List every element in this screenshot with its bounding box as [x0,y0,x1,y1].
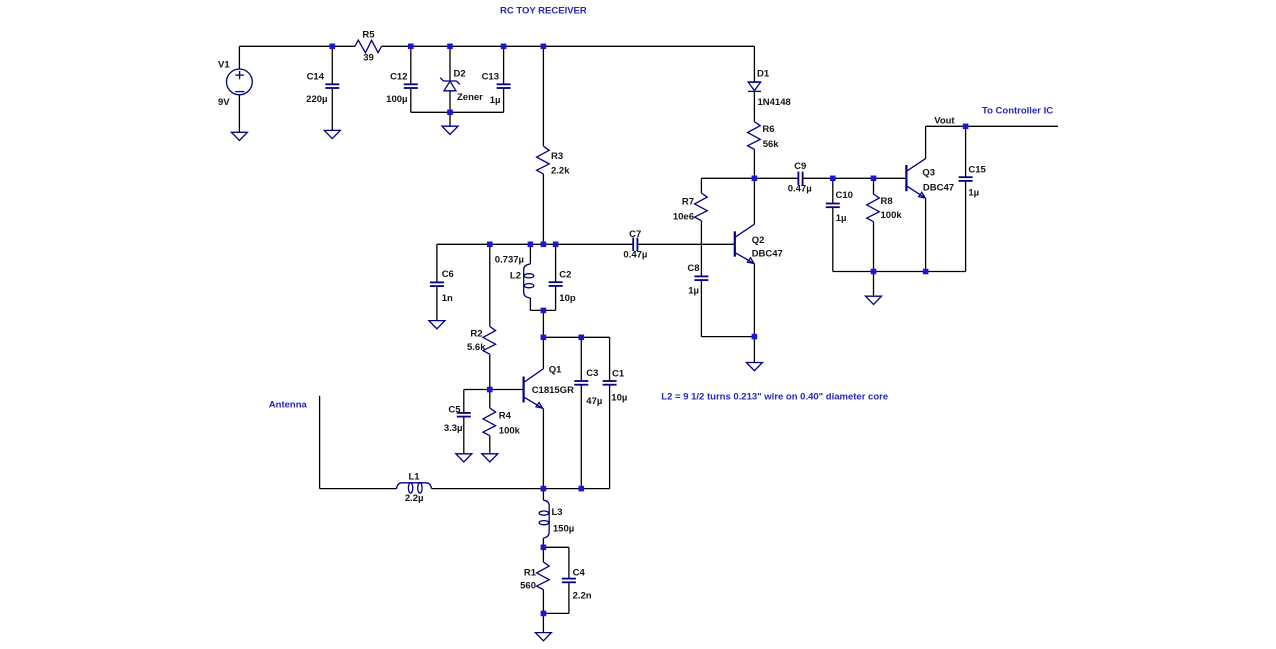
svg-text:R7: R7 [682,196,694,207]
svg-text:0.47µ: 0.47µ [788,184,812,195]
svg-text:10µ: 10µ [611,392,627,403]
node R8 bottom ground [871,269,877,275]
svg-text:150µ: 150µ [553,524,574,535]
capacitor C4 2.2n [543,547,591,613]
wire C3 node to C1 corner [581,336,609,338]
node D2 top [447,44,453,50]
wire C14 node to R5 left [332,45,355,47]
svg-text:DBC47: DBC47 [752,249,783,260]
resistor R6 56k [748,122,780,150]
svg-text:2.2µ: 2.2µ [405,493,424,504]
capacitor C14 220u [306,46,339,130]
wire tank node down to collector rail [542,310,544,337]
node C3 top [579,335,585,341]
ground below C5 [456,454,472,462]
wire Q3 collector up to Vout rail [925,126,927,158]
wire R5 right to C12 node [382,45,411,47]
svg-text:C3: C3 [586,368,598,379]
ground below R1 [535,633,551,641]
wire Q1 base rail [464,389,523,391]
ground below D2 [442,126,458,134]
svg-text:D1: D1 [757,68,770,79]
capacitor C7 0.47u [623,229,647,261]
wire R6 to node [753,149,755,178]
wire Q3 emitter down [925,198,927,271]
svg-text:C2: C2 [559,269,571,280]
svg-text:220µ: 220µ [306,94,327,105]
diode D1 1N4148 [748,68,791,108]
ground below V1 [231,132,247,140]
node R2 top [487,242,493,248]
svg-text:1µ: 1µ [836,213,847,224]
voltage source V1 9V [218,60,252,108]
svg-text:C7: C7 [629,229,641,240]
svg-text:R6: R6 [762,124,774,135]
node Q3 emitter bottom [923,269,929,275]
svg-text:2.2k: 2.2k [551,166,570,177]
wire Q2 collector to node [753,178,755,224]
svg-text:100µ: 100µ [386,94,407,105]
svg-text:1µ: 1µ [968,187,979,198]
wire R2 node to L2 node [490,243,531,245]
node L3 bottom [541,545,547,551]
wire Q1 collector up [542,337,544,369]
resistor R8 100k [867,178,903,271]
svg-text:R3: R3 [551,151,563,162]
ground below R4 [482,454,498,462]
wire D1 to R6 [753,91,755,121]
svg-text:R2: R2 [470,329,482,340]
svg-text:C1815GR: C1815GR [532,385,574,396]
svg-text:C13: C13 [482,72,499,83]
ground below Q2 [746,363,762,371]
resistor R7 10e6 [673,178,707,244]
svg-text:L2: L2 [510,270,521,281]
svg-text:C14: C14 [307,72,325,83]
zener diode D2 [440,46,483,112]
resistor R1 560 [520,547,549,613]
wire mid rail C6 to R2 node [437,243,490,245]
svg-text:39: 39 [363,53,374,64]
svg-text:R8: R8 [881,196,893,207]
svg-text:10e6: 10e6 [673,211,694,222]
svg-text:R5: R5 [362,30,375,41]
svg-text:47µ: 47µ [586,396,602,407]
inductor L1 2.2u [397,471,432,504]
inductor L3 150u [539,489,574,548]
svg-text:V1: V1 [218,60,230,71]
node C12 top [408,44,414,50]
capacitor C13 1u [482,46,511,112]
node D2 ground rail [447,110,453,116]
wire C9 to C10 node [803,177,833,179]
capacitor C15 1u [959,126,987,271]
svg-text:L3: L3 [552,507,563,518]
transistor Q3 DBC47 [906,159,954,199]
svg-text:10p: 10p [559,293,576,304]
wire C12 node to D2 node [411,45,450,47]
node Vout [963,124,969,130]
ground below C6 [429,321,445,329]
node L2 top [528,242,534,248]
capacitor C2 10p [549,244,576,310]
svg-text:R4: R4 [499,411,512,422]
svg-text:560: 560 [520,581,536,592]
wire ground stub below D2 rail [449,112,451,126]
node C13 top [501,44,507,50]
svg-text:C1: C1 [612,369,625,380]
resistor R5 39 [355,30,382,64]
svg-text:Q2: Q2 [752,235,765,246]
wire Q1 emitter down [542,408,544,488]
svg-text:C5: C5 [448,404,461,415]
wire Q2 emitter down [753,264,755,337]
capacitor C10 1u [826,178,853,271]
svg-text:Antenna: Antenna [269,399,308,410]
svg-text:1µ: 1µ [490,95,501,106]
wire antenna vertical [319,396,321,489]
capacitor C3 47u [574,337,602,488]
capacitor C5 3.3u [444,390,471,454]
svg-text:0.47µ: 0.47µ [623,250,647,261]
node R6 bottom junction [752,176,758,182]
capacitor C9 0.47u [788,161,812,195]
node R3 top [541,44,547,50]
wire bottom rail C10 to C15 [833,271,966,273]
resistor R4 100k [483,390,521,454]
svg-text:2.2n: 2.2n [573,591,592,602]
svg-text:9V: 9V [218,97,230,108]
svg-text:C6: C6 [442,269,454,280]
svg-text:R1: R1 [524,568,537,579]
wire R8 node to Q3 base [874,177,907,179]
svg-text:Q3: Q3 [922,167,935,178]
capacitor C12 100u [386,46,418,112]
svg-text:Vout: Vout [934,116,955,127]
svg-text:Q1: Q1 [549,364,562,375]
svg-text:C8: C8 [687,263,699,274]
capacitor C8 1u [687,244,708,336]
wire ground stub Q2 [753,337,755,363]
transistor Q1 C1815GR [524,364,574,408]
svg-text:C15: C15 [968,165,986,176]
ground below C14 [324,130,340,138]
wire C12/C13 bottom rail [411,111,504,113]
wire C13 node to R3 node [504,45,544,47]
wire D2 node to C13 node [450,45,504,47]
node C10 top [830,176,836,182]
wire emitter node to C3 node [543,488,581,490]
svg-text:56k: 56k [763,139,780,150]
node Q2 emitter bottom [752,334,758,340]
capacitor C1 10u [603,337,628,488]
svg-text:100k: 100k [499,426,521,437]
svg-text:0.737µ: 0.737µ [495,255,524,266]
ground below R8 [866,296,882,304]
transistor Q2 DBC47 [735,224,783,264]
wire L1 to emitter node [432,488,544,490]
wire top rail corner down to D1 [753,46,755,82]
wire C2 node to C7 [556,243,634,245]
svg-text:1µ: 1µ [688,286,699,297]
node L2 C2 bottom [541,308,547,314]
svg-text:Zener: Zener [457,92,483,103]
resistor R2 5.6k [467,244,496,389]
svg-text:1n: 1n [442,293,453,304]
node R8 top [871,176,877,182]
node Q1 emitter bottom rail [541,486,547,492]
svg-text:5.6k: 5.6k [467,342,486,353]
svg-text:1N4148: 1N4148 [758,97,791,108]
wire ground stub below R8 [873,272,875,297]
node Q1 base [487,387,493,393]
svg-text:100k: 100k [881,210,903,221]
svg-text:DBC47: DBC47 [923,183,954,194]
wire C8 bottom to Q2 emitter node [701,336,754,338]
capacitor C6 1n [430,244,454,320]
wire ground stub below R1 [542,613,544,632]
resistor R3 2.2k [537,46,571,244]
node Q1 collector rail [541,335,547,341]
svg-text:C10: C10 [836,190,853,201]
wire C7 to Q2 base [637,243,734,245]
inductor L2 0.737u [495,244,534,310]
svg-text:To Controller IC: To Controller IC [982,106,1053,117]
svg-text:L1: L1 [408,471,420,482]
wire top rail V1 to C14 node [239,45,332,47]
wire L2/C2 bottom rail [530,309,555,311]
svg-text:C12: C12 [390,72,407,83]
wire C10 node to R8 node [833,177,874,179]
wire node to C9 [754,177,798,179]
node R3 bottom [541,242,547,248]
node C3 bottom [579,486,585,492]
wire antenna horizontal to L1 [320,488,397,490]
wire L2 node to R3 node [530,243,543,245]
svg-text:C4: C4 [573,568,586,579]
svg-text:D2: D2 [454,69,466,80]
svg-text:L2 = 9 1/2 turns 0.213" wire o: L2 = 9 1/2 turns 0.213" wire on 0.40" di… [661,392,888,403]
wire node to R7 corner [701,177,754,179]
node R1 bottom [541,611,547,617]
wire Vout rail [926,125,1058,127]
wire C3 node to C1 corner bottom [581,488,609,490]
wire R3 node to D1 corner [543,45,754,47]
node C2 top [553,242,559,248]
node C14 top [330,44,336,50]
svg-text:3.3µ: 3.3µ [444,423,463,434]
wire V1 top lead [238,46,240,69]
svg-text:C9: C9 [794,161,806,172]
wire R3 node to C2 node [543,243,555,245]
svg-text:RC TOY RECEIVER: RC TOY RECEIVER [500,6,587,17]
wire collector rail to C3 node [543,336,581,338]
wire V1 bottom lead [238,95,240,133]
